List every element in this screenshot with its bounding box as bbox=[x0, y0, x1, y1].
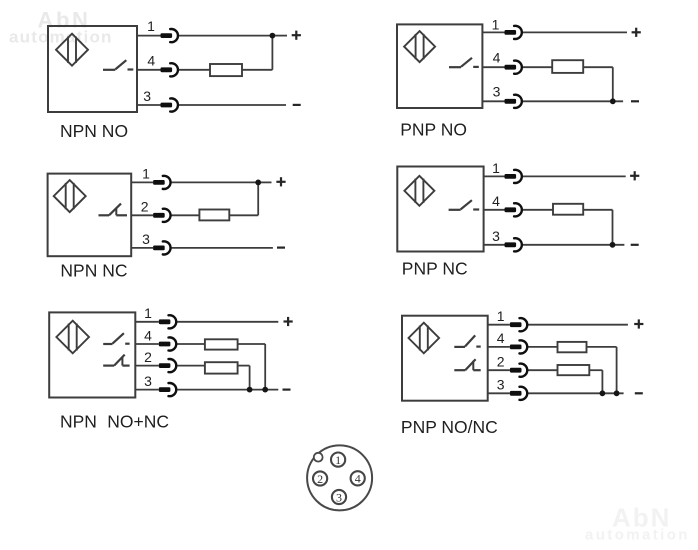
wire U3 pin3 to connector bbox=[131, 247, 153, 249]
svg-text:1: 1 bbox=[142, 165, 150, 181]
wire U3 pin2 to load L3 bbox=[170, 214, 199, 216]
node H junction (U6) bbox=[600, 390, 606, 396]
connector pin 2 (U6) bbox=[510, 364, 527, 377]
connector pin 2 (U3) bbox=[153, 209, 170, 222]
wire U5 pin1 to + terminal bbox=[176, 321, 278, 323]
connector face pin 2 bbox=[313, 471, 327, 486]
wire load L1 to riser bbox=[242, 69, 272, 71]
wire load L5b to dropper bbox=[238, 365, 250, 367]
svg-text:4: 4 bbox=[144, 327, 152, 343]
connector pin 3 (U5) bbox=[159, 383, 176, 396]
wire U3 pin2 to connector bbox=[131, 214, 153, 216]
wire load L2 to dropper bbox=[583, 66, 613, 68]
wire load L6a to dropper bbox=[587, 346, 617, 348]
connector pin 4 (U6) bbox=[510, 340, 527, 353]
proximity sensor symbol U3 bbox=[54, 180, 86, 212]
wire U4 pin3 to connector bbox=[484, 244, 505, 246]
M12 connector face outer circle bbox=[307, 445, 372, 510]
svg-text:4: 4 bbox=[493, 50, 501, 66]
load resistor L1 bbox=[210, 64, 242, 76]
wire U6 pin4 to connector bbox=[488, 346, 510, 348]
svg-text:automation: automation bbox=[9, 27, 113, 46]
node A junction (U1) bbox=[270, 33, 276, 39]
connector pin 2 (U5) bbox=[159, 359, 176, 372]
node E junction (U5) bbox=[262, 387, 268, 393]
svg-text:1: 1 bbox=[335, 453, 341, 467]
wire U5 pin3 to - terminal bbox=[176, 389, 278, 391]
wire U6 pin4 to load L6a bbox=[527, 346, 558, 348]
switch NC contact U6 bbox=[454, 359, 480, 370]
wire U5 pin4 to load L5a bbox=[176, 343, 205, 345]
connector face pin 1 bbox=[331, 453, 345, 468]
wire U5 pin2 to load L5b bbox=[176, 365, 205, 367]
wire U5 pin1 to connector bbox=[135, 321, 159, 323]
proximity sensor symbol U1 bbox=[56, 34, 88, 66]
svg-text:3: 3 bbox=[493, 84, 501, 100]
wire U4 pin4 to connector bbox=[484, 209, 505, 211]
connector pin 1 (U4) bbox=[505, 170, 522, 183]
switch NO contact U5 bbox=[103, 333, 129, 344]
svg-text:automation: automation bbox=[585, 527, 690, 544]
wire U4 pin1 to + terminal bbox=[522, 175, 626, 177]
svg-text:NPN NC: NPN NC bbox=[60, 261, 127, 281]
wire U3 node C to + terminal bbox=[258, 181, 271, 183]
svg-text:4: 4 bbox=[497, 330, 505, 346]
node B junction (U2) bbox=[610, 98, 616, 104]
wire U2 pin4 to connector bbox=[482, 66, 504, 68]
wire U5 pin2 to connector bbox=[135, 365, 159, 367]
wire U2 pin4 to load L2 bbox=[522, 66, 553, 68]
keyway notch circle bbox=[314, 453, 323, 462]
wire U1 pin1 to node A bbox=[178, 35, 273, 37]
connector pin 3 (U1) bbox=[161, 98, 178, 111]
svg-text:3: 3 bbox=[492, 228, 500, 244]
wire load L3 to riser bbox=[229, 214, 258, 216]
svg-text:1: 1 bbox=[144, 305, 152, 321]
wire dropper to node F (U5) bbox=[249, 366, 251, 390]
connector pin 4 (U5) bbox=[159, 337, 176, 350]
wire U4 pin4 to load L4 bbox=[522, 209, 554, 211]
sensor body U4 (PNP NC) bbox=[397, 167, 483, 252]
sensor body U1 (NPN NO) bbox=[48, 26, 137, 112]
wire U1 pin3 to connector bbox=[137, 104, 161, 106]
wire load L4 to dropper bbox=[583, 209, 612, 211]
connector pin 3 (U6) bbox=[510, 387, 527, 400]
wire U6 pin1 to + terminal bbox=[527, 324, 628, 326]
wire U3 pin3 to - terminal bbox=[170, 247, 273, 249]
wire U3 pin1 to connector bbox=[131, 181, 153, 183]
svg-text:1: 1 bbox=[147, 18, 155, 34]
wire U3 pin1 to node C bbox=[170, 181, 258, 183]
wire U2 pin3 to - terminal bbox=[522, 100, 624, 102]
connector pin 4 (U1) bbox=[161, 63, 178, 76]
wire U6 pin3 to connector bbox=[488, 392, 510, 394]
load resistor L5b bbox=[205, 362, 238, 373]
+ terminal (U4) bbox=[630, 171, 639, 180]
wire U6 pin1 to connector bbox=[488, 324, 510, 326]
proximity sensor symbol U5 bbox=[56, 321, 89, 354]
connector pin 1 (U6) bbox=[510, 318, 527, 331]
svg-text:2: 2 bbox=[317, 472, 323, 486]
svg-text:3: 3 bbox=[144, 373, 152, 389]
wire U2 pin3 to connector bbox=[482, 100, 504, 102]
+ terminal (U5) bbox=[284, 317, 293, 326]
connector pin 3 (U2) bbox=[505, 95, 522, 108]
svg-text:3: 3 bbox=[142, 231, 150, 247]
wire U1 pin4 to connector bbox=[137, 69, 161, 71]
svg-text:2: 2 bbox=[141, 198, 149, 214]
+ terminal (U2) bbox=[632, 28, 641, 37]
sensor body U3 (NPN NC) bbox=[48, 174, 132, 257]
svg-text:3: 3 bbox=[497, 377, 505, 393]
connector pin 3 (U3) bbox=[153, 241, 170, 254]
node C junction (U3) bbox=[255, 180, 261, 186]
connector pin 1 (U2) bbox=[505, 26, 522, 39]
connector pin 1 (U1) bbox=[161, 29, 178, 42]
wire U1 node A to + terminal bbox=[272, 35, 287, 37]
wire U6 pin2 to connector bbox=[488, 369, 510, 371]
wire U2 pin1 to connector bbox=[482, 31, 504, 33]
load resistor L6b bbox=[558, 365, 590, 375]
wire U1 pin4 to load L1 bbox=[178, 69, 211, 71]
svg-text:NPN NO: NPN NO bbox=[60, 121, 128, 141]
- terminal (U5) bbox=[283, 389, 291, 391]
wire riser to node C (U3) bbox=[257, 182, 259, 215]
wire dropper to node E (U5) bbox=[264, 344, 266, 390]
svg-text:PNP NC: PNP NC bbox=[402, 259, 468, 279]
connector pin 4 (U4) bbox=[505, 203, 522, 216]
svg-text:PNP NO: PNP NO bbox=[400, 119, 467, 139]
wire load L5a to dropper bbox=[238, 343, 266, 345]
load resistor L3 bbox=[199, 210, 229, 221]
load resistor L6a bbox=[558, 342, 587, 352]
svg-text:1: 1 bbox=[492, 160, 500, 176]
- terminal (U3) bbox=[277, 247, 285, 249]
svg-text:1: 1 bbox=[497, 308, 505, 324]
wire dropper to node G (U6) bbox=[616, 347, 618, 393]
connector pin 1 (U5) bbox=[159, 315, 176, 328]
connector pin 3 (U4) bbox=[505, 238, 522, 251]
proximity sensor symbol U6 bbox=[409, 323, 440, 354]
- terminal (U2) bbox=[631, 100, 639, 102]
connector face pin 3 bbox=[332, 490, 346, 505]
svg-text:3: 3 bbox=[336, 490, 342, 504]
+ terminal (U3) bbox=[276, 177, 285, 186]
+ terminal (U1) bbox=[292, 31, 301, 40]
switch NC contact U5 bbox=[103, 355, 129, 366]
load resistor L5a bbox=[205, 339, 238, 349]
wire U5 pin4 to connector bbox=[135, 343, 159, 345]
wire riser to node A (U1) bbox=[271, 36, 273, 70]
switch contact U4 bbox=[449, 200, 480, 210]
wire dropper to node D (U4) bbox=[612, 210, 614, 245]
wire U1 pin1 to connector bbox=[137, 35, 161, 37]
sensor body U2 (PNP NO) bbox=[397, 24, 482, 108]
wire load L6b to dropper bbox=[589, 369, 602, 371]
wire dropper to node B (U2) bbox=[612, 67, 614, 101]
svg-text:2: 2 bbox=[144, 349, 152, 365]
wire dropper to node H (U6) bbox=[601, 370, 603, 393]
connector pin 4 (U2) bbox=[505, 61, 522, 74]
wire U2 pin1 to + terminal bbox=[522, 31, 628, 33]
- terminal (U4) bbox=[631, 244, 639, 246]
node F junction (U5) bbox=[247, 387, 253, 393]
proximity sensor symbol U4 bbox=[404, 176, 434, 206]
switch NO contact U2 bbox=[449, 58, 479, 67]
svg-text:4: 4 bbox=[355, 472, 361, 486]
svg-text:4: 4 bbox=[147, 52, 155, 68]
node D junction (U4) bbox=[610, 242, 616, 248]
wire U5 pin3 to connector bbox=[135, 389, 159, 391]
wire U6 pin2 to load L6b bbox=[527, 369, 558, 371]
svg-text:NPN: NPN bbox=[60, 411, 97, 431]
load resistor L2 bbox=[552, 60, 583, 73]
load resistor L4 bbox=[553, 204, 583, 215]
switch NC contact U3 bbox=[99, 204, 128, 216]
sensor body U6 (PNP NO/NC) bbox=[402, 316, 488, 401]
wire U1 pin3 to - terminal bbox=[178, 104, 287, 106]
+ terminal (U6) bbox=[634, 319, 643, 328]
switch NO contact U6 bbox=[454, 335, 480, 347]
switch NO contact U1 bbox=[103, 60, 133, 70]
svg-text:2: 2 bbox=[497, 354, 505, 370]
svg-text:3: 3 bbox=[143, 88, 151, 104]
proximity sensor symbol U2 bbox=[404, 31, 435, 62]
wire U4 pin3 to - terminal bbox=[522, 244, 625, 246]
svg-text:NO+NC: NO+NC bbox=[107, 411, 169, 431]
connector pin 1 (U3) bbox=[153, 176, 170, 189]
wire U4 pin1 to connector bbox=[484, 175, 505, 177]
svg-text:PNP NO/NC: PNP NO/NC bbox=[401, 417, 498, 437]
sensor body U5 (NPN NO+NC) bbox=[49, 312, 135, 397]
- terminal (U6) bbox=[635, 392, 643, 394]
- terminal (U1) bbox=[293, 104, 301, 106]
connector face pin 4 bbox=[351, 471, 365, 486]
node G junction (U6) bbox=[614, 390, 620, 396]
svg-text:1: 1 bbox=[492, 16, 500, 32]
svg-text:4: 4 bbox=[492, 193, 500, 209]
wire U6 pin3 to - terminal bbox=[527, 392, 624, 394]
